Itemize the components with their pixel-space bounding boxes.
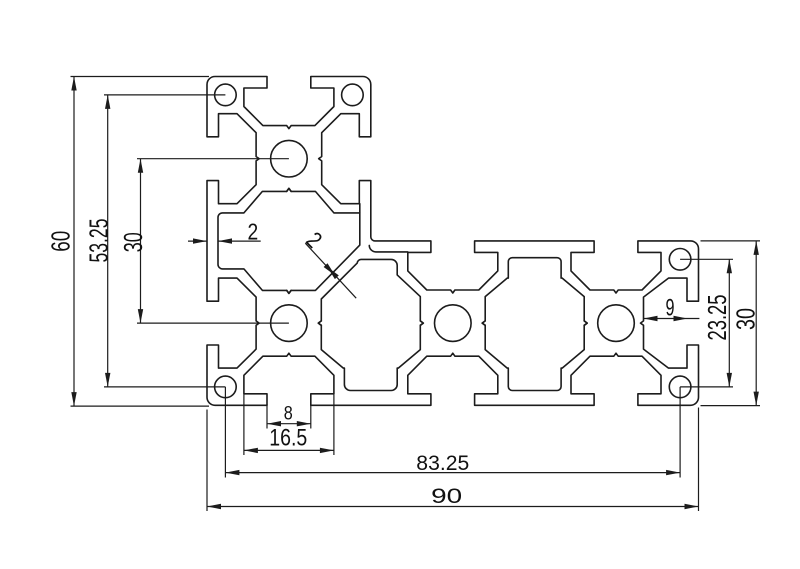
svg-text:60: 60 — [46, 231, 76, 252]
svg-text:83.25: 83.25 — [416, 452, 469, 475]
dimension 9 line — [644, 318, 700, 320]
svg-text:30: 30 — [730, 308, 760, 330]
svg-text:23.25: 23.25 — [702, 295, 732, 341]
dimension 30-right arrows — [754, 241, 759, 406]
center bore module A — [271, 140, 308, 177]
dimension 30-left line — [140, 159, 142, 323]
dimension 30-left leader lines — [137, 159, 289, 323]
svg-text:2: 2 — [247, 218, 258, 244]
dimension 60 line — [73, 77, 75, 407]
dimension 16.5 extension lines — [244, 394, 334, 455]
center bore module B — [271, 305, 308, 342]
dimension 30-right line — [755, 241, 757, 406]
V-notches on chamber sides — [287, 188, 588, 325]
dimension 8 line — [267, 423, 311, 425]
svg-text:8: 8 — [284, 404, 293, 425]
dimension 60 arrows — [71, 77, 76, 407]
dimension 2-web leader — [305, 243, 356, 298]
dimension 30-right extension lines — [701, 241, 761, 406]
dimension 2-wall arrowheads — [193, 238, 232, 243]
dimension 8 extension lines — [267, 404, 311, 428]
svg-text:90: 90 — [431, 485, 462, 508]
svg-text:2: 2 — [301, 227, 327, 253]
internal chamber B/C — [318, 259, 423, 390]
dimension 9 arrowheads — [644, 316, 688, 321]
dimension 60 extension lines — [71, 77, 210, 407]
wall inner surface lines — [218, 204, 571, 395]
corner screw hole bottom-left — [215, 376, 237, 398]
center bore module C — [435, 305, 472, 342]
dimension 83.25 arrowheads — [225, 470, 680, 475]
dimension 53.25 arrows — [105, 95, 110, 387]
dimension 16.5 arrowheads — [244, 448, 334, 453]
dimension 2-web arrowheads — [324, 263, 339, 279]
svg-text:30: 30 — [118, 232, 148, 252]
center bore module D — [598, 305, 635, 342]
dimension 23.25 arrows — [727, 259, 732, 387]
dimension 30-left arrows — [138, 159, 143, 323]
dimension 83.25 extension lines — [225, 387, 680, 478]
profile outer contour with T-slots — [207, 77, 699, 406]
svg-text:16.5: 16.5 — [269, 425, 307, 452]
corner screw hole bottom-right — [669, 376, 691, 398]
dimension 53.25 leader lines — [104, 95, 225, 387]
svg-text:53.25: 53.25 — [84, 219, 114, 263]
dimension 16.5 line — [244, 449, 334, 451]
corner screw hole top-right-D — [669, 248, 691, 270]
re-entrant corner wall lines — [360, 204, 408, 252]
dimension 53.25 line — [107, 95, 109, 387]
dimension 23.25 leader lines — [680, 259, 733, 387]
svg-text:9: 9 — [666, 295, 675, 322]
dimension 90 extension lines — [207, 408, 699, 512]
corner screw hole top-left — [215, 84, 237, 106]
dimension 23.25 line — [728, 259, 730, 387]
internal chamber C/D — [482, 258, 587, 391]
dimension 90 arrowheads — [207, 504, 699, 509]
corner screw hole top-right-A — [342, 84, 364, 106]
dimension 2-wall arrows and lines — [188, 240, 261, 242]
dimension 90 line — [207, 506, 699, 508]
dimension 83.25 line — [225, 472, 680, 474]
dimension 8 arrowheads — [267, 421, 311, 426]
internal chamber A/B — [218, 188, 360, 293]
